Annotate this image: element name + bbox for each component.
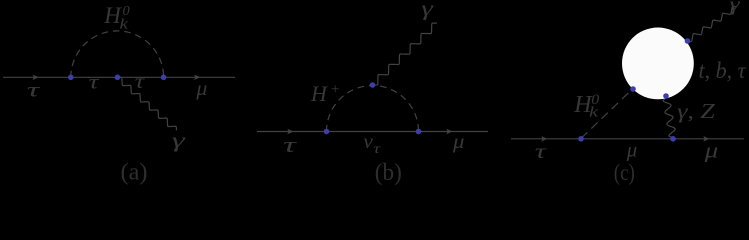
photon gamma wavy line (b) [373,23,437,85]
arrow on tau line (c) [541,136,547,141]
node: vertex dot on blob top right (c) [685,38,691,44]
node: vertex dot on line right (c) [670,136,676,142]
photon gamma wavy line top right (c) [688,6,737,41]
wire: fermion line diagram (c) tau->mu->mu [511,138,744,140]
node: vertex dot left (b) [324,129,330,135]
arrow on mu line (b) [446,129,452,134]
label H+ (b) [310,81,340,106]
dashed Higgs propagator H_k^0 arc (a) [71,31,164,77]
svg-text:γ: γ [421,0,434,20]
node: vertex dot 1 (a) [68,75,74,81]
node: vertex dot 2 (a) [115,75,121,81]
loop blob: white circle t,b,tau loop (c) [622,28,694,100]
svg-text:k: k [120,16,129,32]
svg-text:(a): (a) [121,160,148,186]
node: vertex dot on line left (c) [578,136,584,142]
label H_k^0 (c) [573,92,600,121]
svg-text:τ: τ [535,141,547,163]
svg-text:ν: ν [363,131,373,153]
photon gamma,Z wavy line (c) [663,97,675,138]
svg-text:τ: τ [135,71,145,93]
photon gamma wavy line (a) [118,77,177,130]
svg-text:μ: μ [704,138,719,163]
wire: fermion line diagram (b) tau->mu [257,131,488,133]
svg-text:γ: γ [730,0,741,16]
wire: fermion line diagram (a) tau->mu [3,76,235,78]
node: vertex dot on arc apex (b) [370,82,376,88]
svg-text:τ: τ [89,72,100,94]
svg-text:k: k [589,105,598,121]
svg-text:(c): (c) [614,160,635,185]
label H_k^0 (a) [103,3,129,32]
svg-text:+: + [330,82,340,98]
node: vertex dot on blob left (c) [630,86,636,92]
svg-text:γ: γ [172,131,187,152]
svg-text:μ: μ [195,78,207,100]
svg-text:μ: μ [626,138,637,162]
svg-text:τ: τ [283,132,297,157]
label nu_tau (b) [363,131,381,157]
dashed Higgs H_k^0 propagator line (c) [581,89,633,138]
svg-text:t, b, τ: t, b, τ [699,58,747,83]
dashed charged Higgs H+ arc (b) [327,86,419,132]
arrow on mu line (a) [194,75,200,80]
node: vertex dot 3 (a) [161,75,167,81]
node: vertex dot on blob bottom (c) [663,93,669,99]
svg-text:μ: μ [452,129,464,153]
svg-text:(b): (b) [375,160,402,186]
arrow on tau line (a) [33,75,39,80]
svg-text:H: H [310,81,328,106]
node: vertex dot right (b) [416,129,422,135]
arrow on tau line (b) [287,129,293,134]
arrow on mu line (c) [703,136,709,141]
svg-text:γ, Z: γ, Z [677,99,716,123]
